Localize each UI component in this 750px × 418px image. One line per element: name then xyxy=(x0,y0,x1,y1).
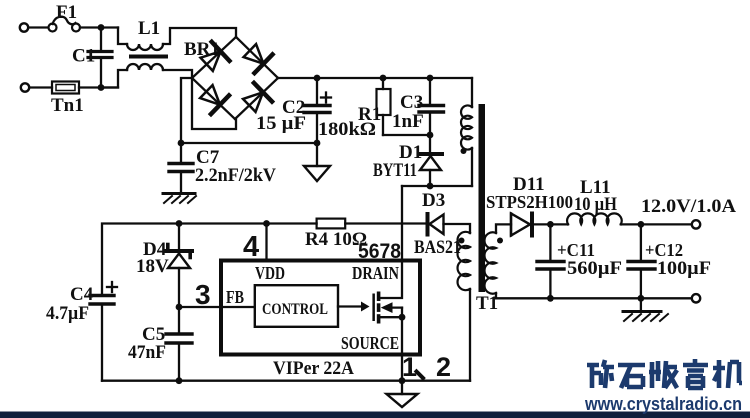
ground hatched under C7 xyxy=(163,192,195,195)
svg-text:4: 4 xyxy=(243,231,259,263)
node junction C1 top xyxy=(98,24,105,31)
svg-text:1nF: 1nF xyxy=(392,111,424,132)
node junction C11 top xyxy=(547,221,554,228)
wire VDD pin xyxy=(265,224,267,261)
mosfet Q source stub xyxy=(380,316,402,318)
IC U1 VIPer22A box xyxy=(221,261,420,355)
svg-text:100µF: 100µF xyxy=(657,258,711,279)
node junction C5 bottom xyxy=(176,377,183,384)
wire bridge minus L-path xyxy=(181,78,192,143)
capacitor C7 xyxy=(180,143,182,162)
svg-text:4.7µF: 4.7µF xyxy=(46,303,89,324)
wire bottom rail2 xyxy=(181,142,317,144)
resistor R1 xyxy=(382,78,384,89)
wire xyxy=(30,86,53,88)
mosfet Q channel bar xyxy=(377,292,381,302)
ground triangle under C2 xyxy=(316,143,318,166)
node junction C3 bottom xyxy=(427,132,434,139)
svg-text:47nF: 47nF xyxy=(128,342,166,363)
core of T1 xyxy=(479,104,486,292)
node phase dot aux xyxy=(459,238,465,244)
node junction C3 top xyxy=(427,75,434,82)
svg-text:www.crystalradio.cn: www.crystalradio.cn xyxy=(584,394,742,414)
node junction C2 bottom xyxy=(314,140,321,147)
svg-text:10 µH: 10 µH xyxy=(574,194,617,215)
svg-text:3: 3 xyxy=(195,279,211,310)
wire FB xyxy=(179,306,221,308)
node junction R1 top xyxy=(380,75,387,82)
wire xyxy=(80,26,118,28)
node junction C7 xyxy=(178,140,185,147)
wire source to rail xyxy=(401,317,403,381)
node junction C12 top xyxy=(638,221,645,228)
node junction source xyxy=(399,314,406,321)
node phase dot primary xyxy=(461,148,467,154)
label C2 plus xyxy=(321,96,331,98)
svg-text:C4: C4 xyxy=(70,284,94,305)
transformer T1 primary winding xyxy=(471,78,473,107)
mosfet Q drain stub xyxy=(380,261,402,299)
node output terminal minus xyxy=(692,294,700,302)
capacitor C2 xyxy=(316,78,318,104)
diode BR1 upper-left xyxy=(198,42,230,74)
transformer T1 aux winding xyxy=(444,224,471,233)
wire drain horizontal xyxy=(402,185,472,187)
svg-text:12.0V/1.0A: 12.0V/1.0A xyxy=(641,196,736,217)
node junction D4 top xyxy=(176,220,183,227)
svg-text:FB: FB xyxy=(226,287,244,307)
svg-text:D3: D3 xyxy=(422,190,445,211)
svg-text:STPS2H100: STPS2H100 xyxy=(486,192,573,212)
svg-text:L1: L1 xyxy=(138,18,160,39)
control block xyxy=(255,285,338,327)
mosfet Q gate bar xyxy=(372,294,375,322)
capacitor C12 xyxy=(640,224,642,260)
diode D11 xyxy=(496,224,511,233)
diode BR1 lower-left xyxy=(197,82,229,114)
svg-text:18V: 18V xyxy=(136,256,169,277)
wire DC+ rail xyxy=(278,77,472,79)
bridge BR1 diamond edges xyxy=(192,37,236,78)
capacitor C5 xyxy=(166,332,192,335)
wire xyxy=(29,26,49,28)
zener D4 xyxy=(178,224,180,250)
svg-text:180kΩ: 180kΩ xyxy=(318,119,376,140)
svg-text:2.2nF/2kV: 2.2nF/2kV xyxy=(195,165,276,186)
wire output bottom xyxy=(550,297,691,299)
node junction C2 top xyxy=(314,75,321,82)
svg-text:F1: F1 xyxy=(56,2,77,23)
mosfet Q gate drive arrow xyxy=(338,305,361,307)
resistor R4 xyxy=(317,219,346,229)
svg-text:DRAIN: DRAIN xyxy=(352,263,399,283)
svg-text:1: 1 xyxy=(402,352,417,382)
inductor L1 top winding xyxy=(127,44,163,50)
svg-text:2: 2 xyxy=(436,352,451,382)
ground hatched output xyxy=(640,298,642,311)
svg-text:15 µF: 15 µF xyxy=(256,113,306,134)
svg-text:C3: C3 xyxy=(400,92,423,113)
diode D1 xyxy=(429,135,431,152)
svg-text:VDD: VDD xyxy=(255,263,285,283)
svg-text:VIPer 22A: VIPer 22A xyxy=(273,358,354,379)
wire xyxy=(79,86,118,88)
wire FB to control xyxy=(221,306,255,308)
wire L1 top right to bridge top xyxy=(163,28,236,44)
ground triangle source xyxy=(401,381,403,394)
transformer T1 secondary winding xyxy=(484,232,496,293)
svg-text:5678: 5678 xyxy=(358,240,401,263)
node junction source ground xyxy=(399,377,406,384)
mosfet Q body stub arrow xyxy=(386,306,402,308)
wire drain vertical xyxy=(401,186,403,261)
svg-text:SOURCE: SOURCE xyxy=(341,333,399,353)
fuse F1 xyxy=(49,24,57,32)
wire to L1 top xyxy=(118,28,127,45)
wire L1 bottom right to bridge left xyxy=(163,70,192,78)
label C4 plus xyxy=(107,286,117,288)
capacitor C11 xyxy=(549,224,551,260)
wire L1 bottom left xyxy=(101,70,127,88)
node junction drain xyxy=(427,183,434,190)
inductor L1 bottom winding xyxy=(127,64,163,70)
capacitor C3 xyxy=(429,78,431,104)
node output terminal plus xyxy=(692,220,700,228)
svg-text:BAS21: BAS21 xyxy=(414,237,461,258)
svg-text:Tn1: Tn1 xyxy=(51,95,84,116)
svg-text:+C12: +C12 xyxy=(645,240,683,260)
node junction VDD pin xyxy=(263,220,270,227)
watermark logo chars xyxy=(587,359,742,388)
watermark footer bar xyxy=(0,412,750,418)
capacitor C1 xyxy=(100,28,102,51)
svg-text:560µF: 560µF xyxy=(567,258,622,279)
svg-text:+C11: +C11 xyxy=(557,240,595,260)
node junction FB xyxy=(176,304,183,311)
svg-text:C1: C1 xyxy=(72,46,95,67)
inductor L11 xyxy=(550,223,568,225)
wire bottom rail xyxy=(102,380,470,382)
capacitor C4 xyxy=(90,294,114,297)
wire VDD node xyxy=(102,224,317,295)
svg-text:CONTROL: CONTROL xyxy=(262,301,328,318)
core of L1 xyxy=(129,55,168,59)
node phase dot secondary xyxy=(497,238,503,244)
diode BR1 lower-right xyxy=(240,83,272,115)
node AC input terminal top xyxy=(20,23,28,31)
node junction C11 bottom xyxy=(547,295,554,302)
diode D3 BAS21 xyxy=(345,222,426,224)
thermistor Tn1 xyxy=(52,82,79,94)
diode BR1 upper-right xyxy=(241,41,273,73)
svg-text:BYT11: BYT11 xyxy=(373,160,417,181)
node junction C1 bottom xyxy=(98,84,105,91)
node AC input terminal bottom xyxy=(21,83,29,91)
node junction C12 bottom xyxy=(638,295,645,302)
